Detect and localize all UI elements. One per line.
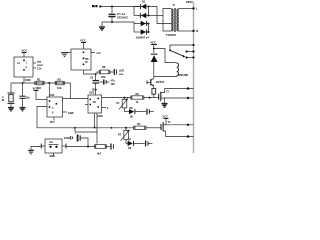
wire lower loop [74,128,76,132]
wire transformer to rail L [178,8,193,10]
svg-text:BC547: BC547 [156,80,165,84]
svg-text:Tr: Tr [173,3,177,7]
node Q3 source [187,135,189,137]
node drain [187,87,189,89]
power VCC Q3 [163,115,169,125]
svg-text:T2: T2 [166,91,169,94]
node J1 [92,5,101,8]
wire U4 gnd down [94,113,103,129]
buzzer LS1 [45,139,62,158]
mosfet Q2 [159,89,194,102]
svg-text:+5V: +5V [96,52,101,55]
wire U3 left down [37,107,47,128]
wire U2 out [84,70,100,74]
wire branch to cap row [95,74,97,80]
wire main low [37,127,134,129]
LED D8 [114,69,124,76]
svg-text:4k7: 4k7 [97,153,102,156]
IC U4 box [85,91,109,114]
wire Q3 source to rail [166,136,194,138]
ground U2 [61,53,71,57]
svg-text:4N: 4N [93,101,96,104]
wire bridge left vertical 2 [133,24,135,33]
svg-text:220: 220 [101,75,106,79]
node Q3 drain [187,124,189,126]
svg-text:1N4007 x4: 1N4007 x4 [136,36,149,40]
wire bridge left vertical [133,7,135,16]
svg-text:1k: 1k [136,100,139,104]
svg-text:P2: P2 [118,134,122,137]
svg-text:D6: D6 [130,107,134,110]
svg-text:12V: 12V [37,68,42,71]
svg-text:VCC: VCC [80,39,86,43]
wire Q3 drain to rail [166,124,194,126]
trimmer P2 [118,128,130,144]
diode D2 [134,13,149,18]
relay K1 coil [154,63,189,78]
capacitor C3 [99,79,115,86]
svg-text:230V~: 230V~ [186,0,195,4]
svg-text:VCC: VCC [150,41,156,45]
svg-text:2: 2 [26,66,28,69]
svg-text:D7: D7 [128,139,132,142]
svg-text:5: 5 [107,107,109,110]
transistor Q1 [147,77,165,88]
svg-text:TS2/018: TS2/018 [166,33,176,37]
ground earth [99,22,105,30]
svg-text:N: N [196,29,198,33]
capacitor C8 [75,133,90,148]
svg-text:10k: 10k [57,86,62,90]
node ch1 [123,97,125,99]
capacitor C6 [146,140,153,146]
svg-text:275VAC: 275VAC [117,15,129,19]
wire AC bottom [102,22,134,24]
svg-text:VCC: VCC [22,49,28,53]
wire transformer top lead [163,9,172,32]
svg-text:VCC: VCC [33,87,39,91]
trimmer P1 [117,98,129,112]
svg-text:R1: R1 [37,77,41,81]
svg-text:8: 8 [52,112,54,115]
ground X1 [8,108,14,111]
crystal X1 [2,83,15,108]
diode D4 [134,29,149,39]
wire bridge to transformer B [149,15,164,17]
capacitor C5 [147,109,154,115]
svg-text:mic: mic [49,141,54,144]
svg-text:R3: R3 [136,92,140,96]
svg-text:GND: GND [68,112,74,115]
resistor R5 [95,144,110,155]
svg-text:US2: US2 [49,93,55,97]
ground Q2 [162,98,168,107]
diode D6 [124,107,146,119]
svg-text:US3: US3 [89,91,95,95]
svg-text:zas.: zas. [119,73,124,76]
svg-text:D1: D1 [142,0,146,4]
svg-text:R8: R8 [102,65,106,69]
capacitor C9 [111,144,113,150]
capacitor C4 [20,82,31,107]
svg-text:RM 96P: RM 96P [179,73,189,77]
capacitor C2 [90,77,99,96]
wire Q2 drain to rail [165,88,194,90]
svg-text:16V: 16V [111,83,116,86]
wire bridge to transformer A [149,7,172,24]
wire U4 out [102,97,131,99]
svg-text:P1: P1 [117,102,121,105]
wire bus down to U4 [70,83,88,99]
svg-text:GND: GND [25,79,31,82]
resistor R3 [131,92,144,104]
svg-text:05: 05 [85,61,88,64]
wire caps to R5 [96,132,98,144]
svg-text:+: + [75,133,77,136]
node source [187,97,189,99]
node N [192,29,198,33]
svg-text:gnd: gnd [50,121,55,124]
wire R4 to gate [146,127,161,129]
wire ch1 gate jog [144,97,159,99]
wire bus down to U3 [48,83,50,97]
capacitor C1 [109,6,129,24]
wire to bridge [138,6,139,8]
svg-text:u1: u1 [17,62,20,65]
svg-text:C6: C6 [90,77,94,80]
wire buzzer right [62,144,95,149]
wire osc bus [11,82,70,84]
node R1 R2 [48,82,50,84]
node branch [95,73,97,75]
node L [192,7,198,11]
svg-text:GND: GND [97,115,103,118]
svg-text:T3: T3 [168,121,171,124]
resistor R1 [35,77,44,90]
mosfet Q3 [161,121,171,137]
svg-text:22p: 22p [26,97,31,100]
svg-text:VCC: VCC [163,115,169,119]
wire AC top [100,6,138,8]
resistor R8 [99,65,113,79]
resistor R2 [55,77,64,90]
svg-text:R4: R4 [137,122,141,126]
IC U1 box [14,49,43,84]
diode D3 [134,21,149,26]
IC U2 box [71,39,101,71]
capacitor C7 [64,136,73,140]
wire transformer to rail N [178,30,193,32]
svg-text:GND: GND [50,155,56,157]
svg-text:M: M [2,99,4,102]
node bridge right column [148,6,150,34]
diode D1 [134,0,149,9]
svg-text:4: 4 [52,107,54,110]
svg-text:L: L [196,7,198,11]
svg-text:R2: R2 [58,77,62,81]
ground C4 [20,108,26,111]
svg-text:1N: 1N [128,147,131,150]
svg-text:1: 1 [26,62,28,65]
node ch2 [125,127,127,129]
mains rail N [193,3,195,153]
wire lower loop right [75,113,97,132]
svg-text:1N: 1N [130,115,133,118]
power VCC U3 [33,87,48,100]
resistor R7 [152,87,156,98]
power VCC relay [150,41,174,63]
ground buzzer [28,150,34,154]
transformer T1 [166,3,178,37]
relay K1 contact [169,44,194,59]
IC U3 box [47,93,74,124]
wire buzzer left [31,144,45,151]
resistor R4 [134,122,146,130]
diode D7 [126,139,145,151]
diode D5 flyback [151,54,158,76]
